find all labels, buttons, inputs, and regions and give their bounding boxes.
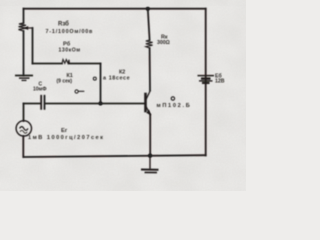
svg-text:130кОм: 130кОм	[59, 48, 81, 54]
switch K1 contact	[75, 90, 78, 93]
resistor Rк zigzag	[146, 40, 153, 48]
wire bottom rail	[24, 155, 206, 157]
svg-text:мП102.Б: мП102.Б	[157, 103, 192, 109]
svg-text:12В: 12В	[215, 79, 225, 85]
svg-text:7-1/100Ом/00в: 7-1/100Ом/00в	[46, 29, 94, 35]
transistor type ring mark	[171, 97, 174, 100]
svg-text:а 18сесе: а 18сесе	[103, 75, 130, 81]
junction dot top rail	[146, 7, 150, 11]
ground left bars	[15, 75, 33, 77]
svg-text:300Ω: 300Ω	[157, 40, 170, 46]
resistor Рб zigzag	[62, 60, 69, 64]
transistor base bar	[144, 94, 147, 111]
ground bottom bars	[141, 169, 159, 171]
potentiometer Rзб wiper arrow	[27, 27, 33, 29]
transistor emitter diagonal	[146, 107, 150, 115]
svg-text:10мФ: 10мФ	[33, 86, 47, 92]
wire source branch bottom	[22, 136, 24, 157]
svg-text:1мВ 1000гц/207сек: 1мВ 1000гц/207сек	[28, 135, 104, 141]
battery Еб cells	[198, 75, 215, 77]
potentiometer Rзб body line	[23, 9, 25, 75]
wire wiper vertical	[32, 28, 34, 64]
transistor collector diagonal	[146, 91, 150, 100]
svg-text:Рб: Рб	[63, 40, 71, 47]
wire K2 branch vertical	[100, 64, 102, 104]
junction dot base node	[98, 101, 102, 105]
potentiometer arrowhead	[24, 26, 28, 30]
resistor Rк line with zigzag	[148, 9, 150, 91]
svg-text:Ег: Ег	[61, 128, 68, 134]
wire mid horizontal left of capacitor	[24, 103, 41, 105]
transistor emitter arrowhead	[146, 110, 151, 116]
capacitor C plates	[41, 96, 44, 109]
junction dot bottom rail	[148, 154, 152, 158]
wire source branch top	[23, 104, 25, 122]
svg-text:(9 сек): (9 сек)	[57, 79, 73, 85]
wire resistor Рб horizontal	[33, 63, 101, 65]
potentiometer Rзб zigzag	[19, 23, 27, 31]
wire emitter vertical	[149, 114, 151, 155]
wire top rail	[24, 8, 206, 10]
ground stub bottom	[149, 156, 151, 169]
switch K2 contact	[93, 77, 96, 80]
wire mid horizontal capacitor to base	[45, 103, 145, 105]
wire right vertical	[205, 9, 207, 156]
paper background	[0, 0, 246, 191]
generator Ег circle	[16, 121, 31, 136]
svg-text:Rзб: Rзб	[58, 21, 69, 28]
generator Ег sine symbol	[20, 127, 28, 131]
